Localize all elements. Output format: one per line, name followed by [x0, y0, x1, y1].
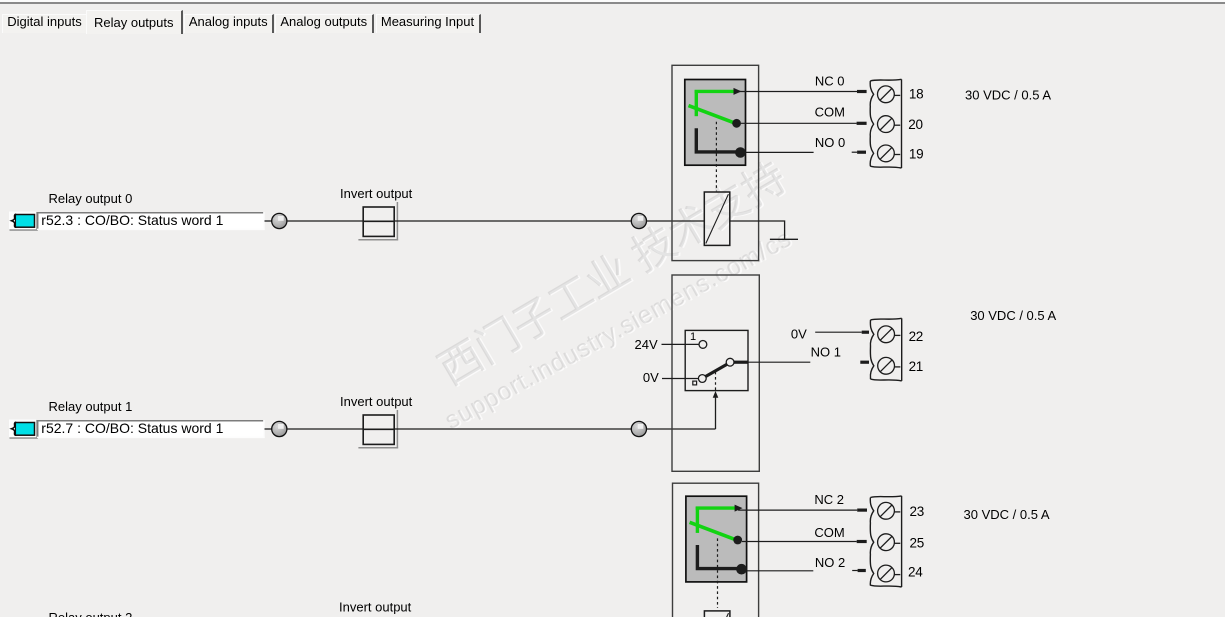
svg-text:24V: 24V — [635, 337, 658, 352]
svg-text:r52.3 : CO/BO: Status word 1: r52.3 : CO/BO: Status word 1 — [41, 212, 223, 228]
svg-text:NC 2: NC 2 — [814, 492, 844, 507]
svg-text:Invert output: Invert output — [340, 186, 413, 201]
svg-text:COM: COM — [814, 525, 844, 540]
svg-text:NO 0: NO 0 — [815, 135, 845, 150]
svg-text:COM: COM — [815, 105, 845, 120]
svg-text:0V: 0V — [643, 370, 659, 385]
svg-text:24: 24 — [908, 565, 923, 580]
svg-text:21: 21 — [909, 359, 923, 374]
svg-text:22: 22 — [909, 329, 923, 344]
svg-text:19: 19 — [909, 146, 923, 161]
svg-text:NO 1: NO 1 — [811, 344, 841, 359]
svg-text:30 VDC / 0.5 A: 30 VDC / 0.5 A — [964, 507, 1050, 522]
svg-text:Invert output: Invert output — [340, 394, 413, 409]
svg-text:20: 20 — [908, 117, 922, 132]
svg-text:Relay output 2: Relay output 2 — [49, 610, 133, 617]
svg-text:r52.7 : CO/BO: Status word 1: r52.7 : CO/BO: Status word 1 — [41, 420, 223, 436]
svg-text:18: 18 — [909, 87, 923, 102]
svg-text:30 VDC / 0.5 A: 30 VDC / 0.5 A — [970, 308, 1056, 323]
svg-text:Relay output 1: Relay output 1 — [49, 399, 133, 414]
svg-text:NC 0: NC 0 — [815, 74, 845, 89]
svg-text:25: 25 — [910, 535, 924, 550]
svg-text:0V: 0V — [791, 327, 807, 342]
svg-text:Relay output 0: Relay output 0 — [49, 191, 133, 206]
svg-text:30 VDC / 0.5 A: 30 VDC / 0.5 A — [965, 87, 1051, 102]
svg-text:1: 1 — [690, 331, 696, 343]
svg-text:23: 23 — [910, 504, 924, 519]
svg-text:Invert output: Invert output — [339, 600, 412, 615]
svg-text:NO 2: NO 2 — [815, 555, 845, 570]
